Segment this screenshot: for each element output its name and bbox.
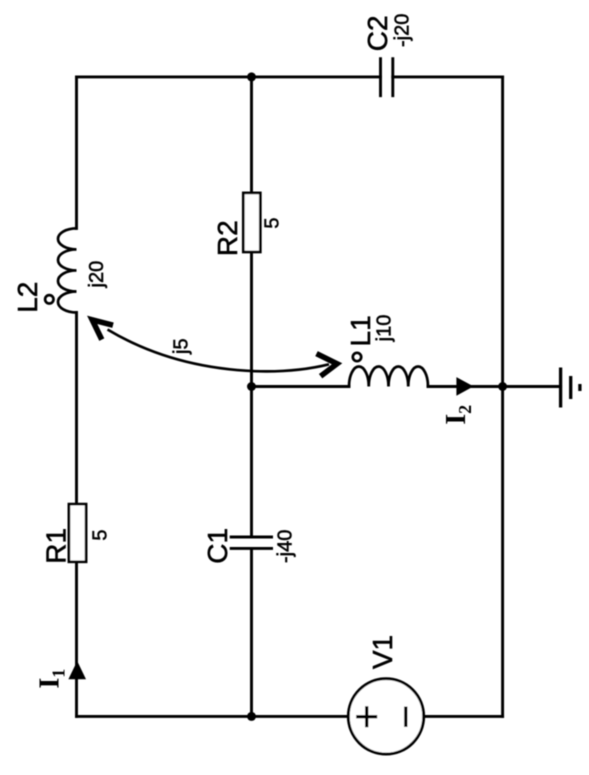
svg-text:L1: L1 xyxy=(345,315,376,346)
svg-text:5: 5 xyxy=(262,217,284,228)
svg-text:-j20: -j20 xyxy=(392,14,414,47)
svg-text:R1: R1 xyxy=(41,528,72,564)
svg-text:j5: j5 xyxy=(171,338,193,355)
svg-text:C2: C2 xyxy=(362,15,393,51)
svg-text:C1: C1 xyxy=(202,528,233,564)
svg-text:R2: R2 xyxy=(212,220,243,256)
svg-text:V1: V1 xyxy=(367,635,398,669)
svg-text:-j40: -j40 xyxy=(275,530,297,563)
svg-text:L2: L2 xyxy=(12,282,43,313)
svg-text:5: 5 xyxy=(89,529,111,540)
svg-text:j10: j10 xyxy=(374,315,396,343)
svg-text:j20: j20 xyxy=(86,261,108,289)
